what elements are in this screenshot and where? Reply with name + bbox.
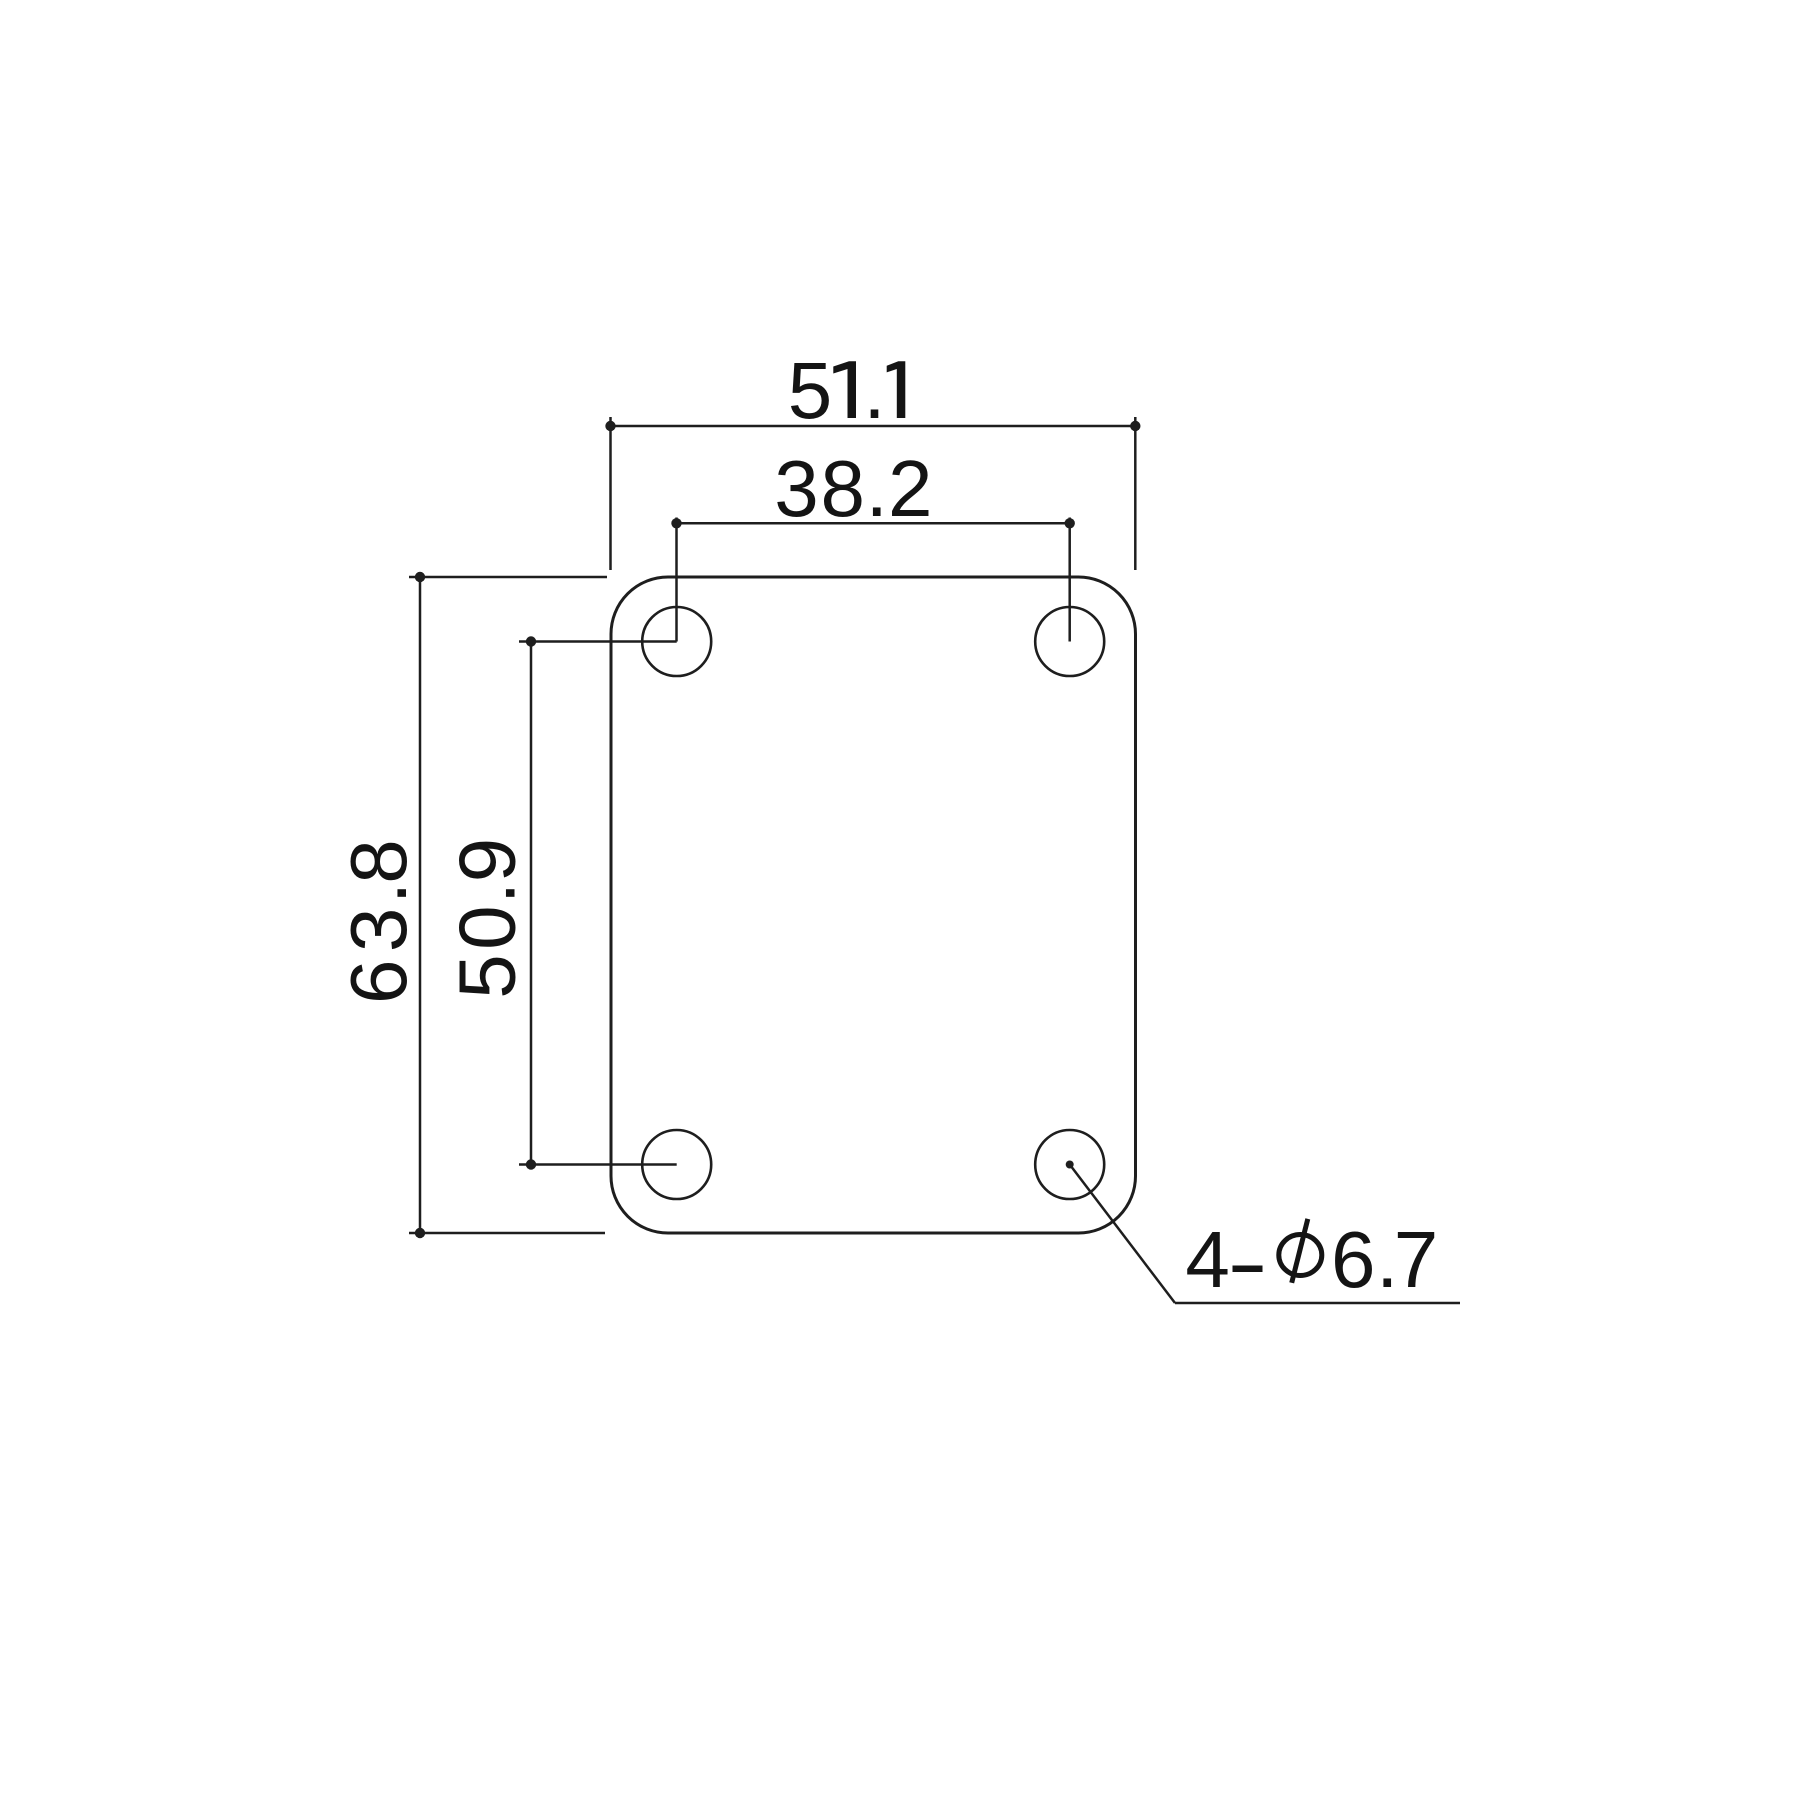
- label 51.1 digit 1 (first): [833, 361, 856, 418]
- dim 63.8 top extension line: [409, 576, 607, 579]
- svg-text:63.8: 63.8: [334, 839, 423, 1004]
- label hyphen: [1233, 1266, 1263, 1273]
- dim 50.9 bottom extension line: [519, 1163, 677, 1166]
- dimension line 51.1: [611, 425, 1136, 428]
- dim 51.1 left extension line: [609, 417, 612, 570]
- dim 50.9 top extension line: [519, 640, 677, 643]
- svg-text:.: .: [863, 346, 885, 435]
- label 51.1 digit 1 (second): [887, 361, 906, 418]
- dim 38.2 left extension line: [675, 518, 678, 642]
- dimension line 63.8: [419, 577, 422, 1233]
- svg-text:5: 5: [788, 346, 833, 435]
- dim 38.2 right dot: [1065, 518, 1075, 528]
- dim 50.9 top dot: [526, 636, 536, 646]
- leader diagonal line: [1070, 1165, 1175, 1304]
- hole top-left: [642, 607, 711, 676]
- hole bottom-left: [642, 1130, 711, 1199]
- svg-text:4: 4: [1185, 1215, 1230, 1304]
- neck plate outline: [611, 577, 1136, 1233]
- hole top-right: [1035, 607, 1104, 676]
- dim 63.8 bottom extension line: [409, 1232, 605, 1235]
- svg-text:6.7: 6.7: [1331, 1215, 1438, 1304]
- dim 51.1 left dot: [605, 421, 615, 431]
- dim 63.8 top dot: [415, 572, 425, 582]
- leader horizontal line: [1175, 1302, 1460, 1305]
- svg-text:50.9: 50.9: [443, 838, 532, 999]
- hole bottom-right: [1035, 1130, 1104, 1199]
- diameter symbol circle: [1279, 1235, 1322, 1276]
- svg-text:38.2: 38.2: [774, 444, 932, 533]
- dimension line 38.2: [677, 522, 1070, 525]
- dim 51.1 right extension line: [1134, 417, 1137, 570]
- dim 63.8 bottom dot: [415, 1228, 425, 1238]
- dimension line 50.9: [530, 642, 533, 1165]
- dim 38.2 right extension line: [1068, 518, 1071, 642]
- dim 50.9 bottom dot: [526, 1159, 536, 1169]
- dim 38.2 left dot: [671, 518, 681, 528]
- leader dot at bottom-right hole center: [1066, 1161, 1074, 1169]
- diameter symbol slash: [1292, 1219, 1308, 1283]
- dim 51.1 right dot: [1130, 421, 1140, 431]
